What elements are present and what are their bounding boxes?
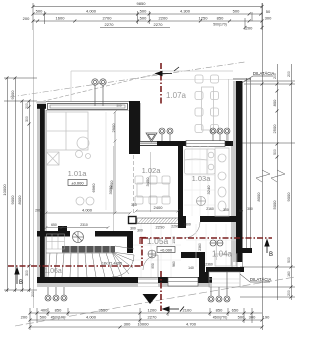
sliding door threshold in terrace wall [186, 141, 225, 147]
svg-text:10000: 10000 [2, 184, 7, 196]
svg-text:200: 200 [23, 16, 30, 21]
svg-text:1.03a: 1.03a [192, 174, 212, 183]
svg-text:1.07a: 1.07a [166, 91, 187, 100]
svg-text:4500(770): 4500(770) [213, 316, 228, 320]
svg-text:300: 300 [137, 229, 143, 233]
bed group [47, 112, 89, 150]
svg-text:DILATÁCIA: DILATÁCIA [253, 71, 275, 76]
dim line right 3 [291, 64, 293, 300]
step connector wall [204, 272, 209, 277]
section A line top [160, 63, 162, 105]
svg-text:3000: 3000 [108, 185, 113, 195]
section B arrow left [15, 268, 19, 284]
svg-text:500: 500 [233, 9, 240, 14]
terrace edge top [141, 79, 234, 81]
bottom exterior wall left part [37, 277, 212, 283]
svg-text:2160: 2160 [206, 207, 214, 211]
dim line row3 [33, 20, 262, 22]
level box +0.000 [157, 247, 175, 253]
label DILATACIA top [240, 71, 275, 84]
bathroom counter [215, 148, 229, 216]
svg-text:10000: 10000 [137, 322, 149, 327]
svg-text:1600: 1600 [56, 16, 66, 21]
svg-text:200: 200 [35, 209, 41, 213]
red corner bracket [140, 237, 146, 244]
svg-text:2200: 2200 [159, 16, 169, 21]
bed [215, 254, 236, 266]
dim line left 8000 [22, 101, 24, 292]
terrace wall (south wall of 1.02a/1.03a) [134, 141, 237, 146]
svg-text:500: 500 [40, 315, 47, 320]
dim line right main vertical [262, 3, 264, 330]
svg-text:8000: 8000 [256, 192, 261, 202]
door arc 1.03a [184, 222, 200, 238]
svg-text:200: 200 [287, 290, 291, 296]
svg-text:1250: 1250 [199, 16, 209, 21]
svg-text:2360: 2360 [205, 263, 213, 267]
svg-text:18x171,4x285: 18x171,4x285 [102, 262, 122, 266]
svg-text:960: 960 [172, 261, 176, 267]
svg-text:300: 300 [265, 16, 272, 21]
svg-text:300: 300 [247, 207, 253, 211]
chair circles [76, 197, 84, 205]
svg-text:850: 850 [55, 308, 62, 313]
right wall lower joint lines [237, 253, 243, 267]
plant circles [76, 151, 83, 158]
dim line 3450 [150, 152, 152, 212]
dim line bottom row3 [30, 326, 262, 328]
svg-text:850: 850 [216, 308, 223, 313]
svg-text:200: 200 [287, 71, 291, 77]
svg-text:650: 650 [232, 308, 239, 313]
svg-text:3450: 3450 [145, 177, 150, 187]
svg-text:±0.000: ±0.000 [71, 180, 84, 185]
ceiling edge dashed 1.01a|1.02a [133, 155, 135, 215]
porch window threshold [168, 278, 198, 287]
svg-text:4.300: 4.300 [180, 9, 191, 14]
svg-text:1.06a: 1.06a [44, 268, 62, 275]
svg-text:50: 50 [266, 9, 271, 14]
dim line left detail [29, 101, 31, 292]
markers top pair [92, 79, 106, 106]
side line [105, 112, 107, 210]
svg-text:1.02a: 1.02a [142, 166, 162, 175]
interior dim 650/2310 line [45, 226, 110, 229]
svg-text:2360: 2360 [198, 243, 202, 251]
extension horizontals [4, 77, 37, 79]
svg-text:DILATÁCIA: DILATÁCIA [250, 277, 272, 282]
markers bottom-left trio [45, 287, 67, 301]
dim line row1 overall [33, 6, 262, 8]
dining chairs [135, 176, 170, 204]
svg-text:5000: 5000 [272, 200, 277, 210]
hatched wall 1.02a|1.05a [137, 218, 179, 224]
svg-text:850: 850 [217, 16, 224, 21]
right exterior wall [233, 81, 236, 262]
svg-text:1.01a: 1.01a [68, 169, 88, 178]
svg-text:2310: 2310 [80, 223, 88, 227]
svg-text:500(170): 500(170) [213, 23, 227, 27]
top exterior wall [37, 101, 133, 104]
terrace chairs [195, 75, 219, 133]
svg-text:140: 140 [188, 266, 194, 270]
svg-text:2270: 2270 [105, 22, 115, 27]
svg-text:650: 650 [51, 223, 57, 227]
terrace table [202, 87, 214, 130]
svg-text:300: 300 [249, 315, 256, 320]
section A line bottom [160, 271, 162, 311]
svg-text:2270: 2270 [154, 22, 164, 27]
svg-text:200: 200 [25, 103, 29, 109]
svg-text:4.000: 4.000 [86, 9, 97, 14]
dilatation closure wall bottom [238, 248, 252, 253]
marker circles 1.04a [210, 240, 223, 246]
stove dark block [58, 226, 67, 236]
dim line 3000 [113, 146, 115, 231]
svg-text:500: 500 [140, 9, 147, 14]
markers bottom-right trio [208, 272, 230, 302]
svg-text:300: 300 [25, 270, 29, 276]
level box ±0.000 [68, 180, 87, 186]
svg-text:190: 190 [263, 315, 270, 320]
extension horizontals right [244, 80, 295, 82]
dim line row2 [33, 13, 262, 15]
outer reference line [33, 30, 35, 308]
left exterior wall [37, 101, 40, 287]
window left part of terrace wall [140, 142, 157, 146]
svg-text:300: 300 [223, 208, 229, 212]
svg-text:300: 300 [131, 203, 137, 207]
svg-text:6960: 6960 [91, 183, 96, 193]
svg-text:400: 400 [41, 308, 48, 313]
svg-text:300: 300 [25, 116, 29, 122]
svg-text:800: 800 [272, 99, 277, 106]
svg-text:2100: 2100 [183, 308, 193, 313]
dilatation neighbour wall [247, 78, 251, 248]
svg-text:2900: 2900 [111, 123, 116, 133]
dim line left 10000 [7, 78, 9, 292]
section A big triangle marker [143, 294, 159, 304]
markers terrace pair [159, 128, 173, 141]
drain circle [148, 250, 156, 258]
window in top wall [46, 102, 129, 111]
lockers above stairs [47, 234, 65, 249]
door arc hall bottom [143, 255, 158, 270]
section A arrow bottom [163, 307, 184, 312]
svg-text:4.000: 4.000 [82, 208, 93, 213]
bottom wall 1.04a part [206, 267, 244, 272]
svg-text:B: B [269, 252, 273, 258]
svg-text:500: 500 [140, 16, 147, 21]
svg-text:160: 160 [287, 271, 291, 277]
zigzag break right [256, 170, 270, 182]
svg-text:9850: 9850 [137, 1, 147, 6]
svg-text:1.04a: 1.04a [212, 250, 233, 259]
svg-text:9000: 9000 [10, 90, 15, 100]
svg-text:2250: 2250 [156, 225, 166, 230]
svg-text:500: 500 [36, 9, 43, 14]
bed 1.03a [185, 149, 216, 174]
terrain diagonal bottom [15, 277, 295, 326]
extension verticals bottom [29, 308, 31, 330]
floor tiles 1.05a [133, 224, 181, 277]
right wall top cap [233, 78, 251, 80]
porch step outline [209, 272, 240, 287]
dining table [137, 183, 169, 197]
interior wall 1.05a|1.03a vertical [178, 146, 183, 218]
svg-text:500: 500 [273, 149, 277, 155]
1.03a bottom wall [178, 216, 185, 222]
wall 1.01a|1.06a [37, 231, 70, 237]
jamb column 1.02a|1.05a [129, 217, 137, 224]
interior dim horizontal 4.000 [45, 212, 132, 215]
terrace edge left [140, 103, 142, 141]
svg-text:9000: 9000 [286, 192, 291, 202]
dim extension line [216, 240, 218, 260]
svg-text:4.000: 4.000 [86, 315, 97, 320]
wall lower 1.04a left [199, 258, 205, 277]
svg-text:B: B [19, 280, 23, 286]
dim labels top [23, 1, 272, 31]
floor tiles 1.04a [186, 224, 236, 267]
winder treads radiating [112, 252, 122, 277]
wall jog band [181, 252, 205, 258]
section B jog vertical [141, 238, 143, 266]
floor tiles 1.03a [184, 146, 215, 216]
section B arrow right [265, 240, 269, 253]
svg-text:4.700: 4.700 [186, 322, 197, 327]
svg-text:500: 500 [238, 315, 245, 320]
roof overhang outline [71, 71, 233, 101]
drain circle stairs [73, 232, 84, 243]
label DILATACIA bottom [240, 274, 272, 282]
svg-text:1300: 1300 [183, 223, 191, 227]
svg-text:200: 200 [246, 26, 253, 31]
markers terrace trio [210, 128, 230, 141]
dim ticks row1-3 [32, 5, 264, 29]
svg-text:2400: 2400 [154, 205, 164, 210]
section A arrow top [156, 67, 179, 76]
section B line left [8, 265, 142, 267]
svg-text:500: 500 [287, 257, 291, 263]
stair treads lower flight [46, 246, 134, 277]
armchair circle [77, 137, 89, 149]
terrace edge right [228, 79, 230, 141]
dim line row4 partial [100, 27, 170, 29]
upper flight landing band [62, 246, 115, 253]
interior wall corner 1.05a|1.04a [178, 216, 186, 228]
hatched box [47, 152, 60, 165]
svg-text:+0.000: +0.000 [160, 247, 173, 252]
roof overhang diagonal short [36, 73, 160, 103]
dim line bottom row1 [30, 312, 262, 314]
svg-text:50: 50 [239, 209, 243, 213]
extension verticals [32, 3, 34, 30]
pier between 1.01a and terrace [129, 101, 140, 154]
entrance door threshold [138, 278, 158, 287]
svg-text:200: 200 [31, 291, 35, 297]
svg-text:2270: 2270 [148, 315, 158, 320]
drain circle 1.03a [197, 197, 206, 206]
svg-text:500: 500 [116, 104, 121, 108]
svg-text:200: 200 [21, 315, 28, 320]
interior dim vertical 1.01a [114, 111, 117, 215]
svg-text:300: 300 [124, 322, 131, 327]
svg-text:9000: 9000 [10, 195, 15, 205]
svg-text:2500: 2500 [272, 124, 277, 134]
svg-text:300: 300 [130, 227, 136, 231]
svg-text:1200: 1200 [148, 308, 158, 313]
svg-text:8000: 8000 [17, 195, 22, 205]
roof overhang diagonal long [10, 62, 245, 97]
dim line bottom row2 [30, 319, 262, 321]
svg-text:2290: 2290 [171, 225, 179, 229]
winder outer edge [112, 255, 134, 277]
section B line right [142, 237, 272, 239]
svg-text:2700: 2700 [103, 16, 113, 21]
dim line left 9000 [15, 78, 17, 292]
svg-text:3240: 3240 [206, 185, 211, 195]
svg-text:950: 950 [151, 263, 155, 269]
dim line right 2 [277, 64, 279, 300]
stair wall stub [127, 236, 133, 253]
